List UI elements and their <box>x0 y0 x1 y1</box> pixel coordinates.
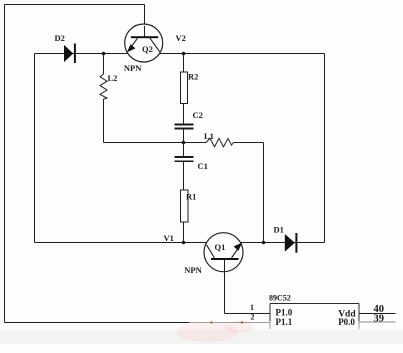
svg-text:P1.1: P1.1 <box>276 317 293 327</box>
svg-text:C2: C2 <box>193 110 203 120</box>
svg-text:L2: L2 <box>108 73 118 83</box>
svg-text:39: 39 <box>374 314 385 325</box>
svg-text:D2: D2 <box>55 33 65 43</box>
svg-text:Q2: Q2 <box>142 44 153 54</box>
svg-text:V1: V1 <box>164 233 174 243</box>
svg-text:L1: L1 <box>204 131 214 141</box>
svg-text:Q1: Q1 <box>215 242 226 252</box>
svg-text:D1: D1 <box>274 225 284 235</box>
svg-text:V2: V2 <box>176 33 186 43</box>
svg-text:89C52: 89C52 <box>269 294 291 303</box>
svg-text:R2: R2 <box>188 72 198 82</box>
svg-text:NPN: NPN <box>184 265 202 275</box>
svg-text:1: 1 <box>250 303 254 312</box>
svg-text:NPN: NPN <box>124 63 142 73</box>
svg-text:2: 2 <box>251 313 255 322</box>
svg-text:R1: R1 <box>186 192 196 202</box>
svg-text:C1: C1 <box>198 161 208 171</box>
svg-text:P0.0: P0.0 <box>338 317 355 327</box>
